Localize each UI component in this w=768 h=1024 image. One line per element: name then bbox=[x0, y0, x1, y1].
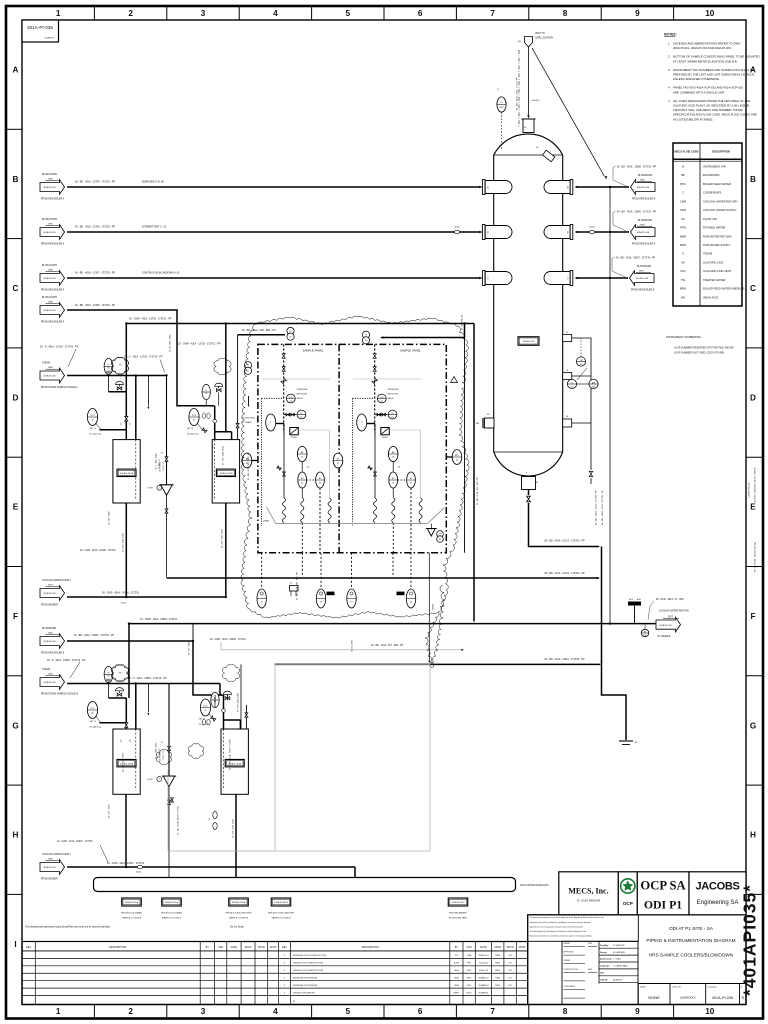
svg-text:PRESSURE: PRESSURE bbox=[297, 389, 309, 391]
svg-text:0960: 0960 bbox=[48, 269, 54, 271]
svg-text:ODI AT P1 SITE - SA: ODI AT P1 SITE - SA bbox=[669, 926, 714, 931]
funnel stem bbox=[168, 785, 170, 868]
acid conveyance main trough bbox=[94, 878, 516, 892]
svg-text:*401API035*: *401API035* bbox=[740, 884, 760, 996]
svg-text:2: 2 bbox=[159, 488, 160, 490]
svg-text:EMERGENCY B. B2: EMERGENCY B. B2 bbox=[142, 181, 165, 184]
lower funnel stem to trough bbox=[168, 868, 170, 878]
panel drain funnel TP bbox=[427, 529, 435, 537]
svg-text:RAIN WATER SUPPLY: RAIN WATER SUPPLY bbox=[703, 243, 731, 247]
svg-text:REISSUED FOR DESIGN: REISSUED FOR DESIGN bbox=[293, 978, 318, 980]
svg-text:DESCRIPTION: DESCRIPTION bbox=[362, 946, 379, 949]
svg-text:9: 9 bbox=[635, 9, 640, 18]
riser cooler3 CWR bbox=[128, 624, 130, 698]
svg-text:BLOW DOWN: BLOW DOWN bbox=[42, 297, 57, 299]
svg-text:2.: 2. bbox=[668, 55, 671, 59]
sample cylinder item bbox=[290, 586, 299, 592]
svg-text:CWR: CWR bbox=[680, 199, 686, 203]
svg-text:REDUCING: REDUCING bbox=[297, 394, 308, 396]
svg-text:20 - CWR - 401A - 13803 - 1T2T: 20 - CWR - 401A - 13803 - 1T2T01 bbox=[210, 638, 246, 641]
panel AE analyzer bbox=[297, 446, 307, 461]
svg-text:NOTE: NOTE bbox=[148, 488, 154, 490]
svg-text:BY: BY bbox=[206, 946, 210, 949]
svg-text:1: 1 bbox=[56, 9, 61, 18]
equipment tag 401A-E-015B bbox=[162, 898, 182, 906]
svg-text:BLOWDOWN: BLOWDOWN bbox=[637, 266, 652, 268]
svg-text:Proj.Mgr.: Proj.Mgr. bbox=[600, 945, 609, 947]
svg-text:4.: 4. bbox=[668, 86, 671, 90]
disclaimer text box bbox=[528, 915, 639, 942]
svg-text:401A-E-015 B: 401A-E-015 B bbox=[165, 901, 179, 904]
open drain symbol bbox=[619, 740, 633, 742]
svg-text:50x20: 50x20 bbox=[121, 603, 126, 605]
pipe 80-BD-13811 lower header bbox=[275, 663, 601, 665]
svg-text:Architecural: Architecural bbox=[600, 958, 612, 961]
cooler2 short stub valve bbox=[245, 705, 247, 729]
pipe steam B main extension bbox=[169, 683, 220, 685]
svg-text:ISSUED FOR CONSTRUCTION: ISSUED FOR CONSTRUCTION bbox=[293, 970, 324, 972]
svg-text:20 - CWS - 401A - 24106: 20 - CWS - 401A - 24106 bbox=[221, 529, 224, 548]
svg-text:ALL LINES DESIGNATED INSIDE TH: ALL LINES DESIGNATED INSIDE THE HRS AREA… bbox=[673, 99, 750, 103]
svg-text:APVD: APVD bbox=[245, 946, 252, 949]
riser 241 bbox=[240, 664, 242, 729]
svg-text:20 - CWR - 401A - 13802 - 1T2T: 20 - CWR - 401A - 13802 - 1T2T01 bbox=[140, 618, 178, 621]
svg-text:20 - C - 401A - 13703 - 1T2T19: 20 - C - 401A - 13703 - 1T2T19 - PP bbox=[124, 356, 163, 359]
svg-text:REISSUED FOR DESIGN: REISSUED FOR DESIGN bbox=[293, 985, 318, 987]
svg-text:20 - BD - 401A - 006 - B60 - P: 20 - BD - 401A - 006 - B60 - PP bbox=[476, 476, 479, 505]
svg-text:0960: 0960 bbox=[48, 632, 54, 634]
svg-text:FFG: FFG bbox=[467, 978, 472, 980]
arrow stub on steam line bbox=[147, 684, 149, 713]
svg-text:2: 2 bbox=[128, 9, 133, 18]
svg-text:40 - BD - 401A - 13708: 40 - BD - 401A - 13708 bbox=[169, 335, 172, 352]
svg-text:401A-PI-033: 401A-PI-033 bbox=[43, 375, 56, 378]
svg-text:WA: WA bbox=[681, 295, 685, 299]
panel AT bubbles bbox=[389, 472, 398, 488]
svg-text:PROB HRS BOILER B: PROB HRS BOILER B bbox=[632, 244, 656, 246]
svg-text:24 - CWS - 401A - 24307 - 1T2T: 24 - CWS - 401A - 24307 - 1T2T01 bbox=[57, 840, 93, 843]
svg-text:BD: BD bbox=[681, 173, 685, 177]
svg-text:9: 9 bbox=[635, 1007, 640, 1016]
svg-text:This drawing was generated usi: This drawing was generated using SmartPl… bbox=[25, 926, 111, 929]
svg-text:20 - CWS - 24106: 20 - CWS - 24106 bbox=[109, 511, 111, 525]
svg-text:RWK: RWK bbox=[495, 970, 500, 972]
vent diagonal tie line bbox=[532, 48, 605, 177]
svg-text:401A-PI-035: 401A-PI-035 bbox=[27, 25, 53, 30]
svg-text:N6: N6 bbox=[566, 370, 568, 372]
svg-text:APVD: APVD bbox=[270, 946, 277, 949]
svg-text:E: E bbox=[750, 503, 756, 512]
svg-text:80 - BD - 401A - 13712 - 1T2T0: 80 - BD - 401A - 13712 - 1T2T02 - PP bbox=[545, 572, 586, 575]
svg-text:SAMPLE COOLER B: SAMPLE COOLER B bbox=[162, 916, 182, 919]
panel A edge analyzer bubble bbox=[242, 453, 252, 468]
svg-text:ST. LOUIS, MISSOURI: ST. LOUIS, MISSOURI bbox=[577, 901, 601, 903]
svg-text:0960: 0960 bbox=[640, 224, 646, 226]
svg-text:MCG: MCG bbox=[629, 599, 634, 601]
cloudlets by others markers bbox=[111, 358, 128, 375]
off-page flag to 401A-PI-036 row3 bbox=[577, 277, 629, 279]
level bridle piping bbox=[572, 338, 591, 470]
svg-text:B: B bbox=[13, 175, 19, 184]
level gauge LG bbox=[567, 379, 576, 388]
gray sample line 20-BD-007 bbox=[220, 642, 222, 650]
equipment tag 401A-E-016A bbox=[229, 898, 249, 906]
svg-text:CKD: CKD bbox=[218, 946, 223, 949]
svg-text:Q3000XXX: Q3000XXX bbox=[680, 996, 695, 1000]
svg-text:401API035: 401API035 bbox=[613, 978, 622, 981]
svg-text:D: D bbox=[13, 393, 19, 402]
svg-text:ISSUED FOR CONSTRUCTION: ISSUED FOR CONSTRUCTION bbox=[293, 963, 324, 965]
svg-text:1: 1 bbox=[453, 380, 454, 382]
vessel drain nozzle bbox=[563, 419, 572, 427]
svg-text:0960: 0960 bbox=[48, 178, 54, 180]
svg-text:RGA: RGA bbox=[454, 977, 459, 980]
level bridle bottom valve bbox=[589, 471, 592, 476]
svg-text:40x50: 40x50 bbox=[454, 227, 459, 229]
svg-text:- 1T2T19 - PP: - 1T2T19 - PP bbox=[159, 748, 161, 759]
svg-text:Engineering SA: Engineering SA bbox=[697, 900, 739, 906]
svg-text:FILTER: FILTER bbox=[382, 437, 388, 439]
upper cooler 2 bottom drop to CWS bbox=[225, 503, 227, 597]
svg-text:A 4x8 D1 - AS BUILT CHECK - PD: A 4x8 D1 - AS BUILT CHECK - PDF/LP bbox=[754, 467, 757, 502]
svg-text:40 - BD - 401A - 13708 - 1T2T1: 40 - BD - 401A - 13708 - 1T2T19 - PP bbox=[75, 304, 116, 307]
nozzle sparger row2 left bbox=[482, 225, 485, 240]
svg-text:BLOW DOWN: BLOW DOWN bbox=[42, 219, 57, 221]
svg-text:50x20: 50x20 bbox=[136, 872, 141, 874]
svg-text:MECS, Inc.: MECS, Inc. bbox=[568, 887, 608, 896]
svg-text:0960: 0960 bbox=[48, 223, 54, 225]
svg-text:R. SANFORD: R. SANFORD bbox=[613, 944, 625, 947]
svg-text:DATE: DATE bbox=[231, 946, 238, 949]
svg-text:H: H bbox=[750, 831, 756, 840]
svg-text:7: 7 bbox=[490, 1007, 495, 1016]
svg-text:BLOWDOWN: BLOWDOWN bbox=[42, 628, 57, 630]
svg-text:M. LANTWELL: M. LANTWELL bbox=[613, 951, 626, 954]
svg-text:N5: N5 bbox=[566, 332, 568, 334]
PRV inline valves bbox=[377, 413, 381, 416]
svg-text:20 - CWR - 401A - 13703: 20 - CWR - 401A - 13703 bbox=[221, 446, 224, 465]
svg-text:401A-PI-033: 401A-PI-033 bbox=[43, 309, 56, 312]
svg-text:63: 63 bbox=[456, 460, 458, 462]
svg-text:HRS SAMPLE COOLERS/BLOWDOWN: HRS SAMPLE COOLERS/BLOWDOWN bbox=[649, 953, 733, 958]
svg-text:DRC: DRC bbox=[643, 635, 648, 637]
svg-text:VENT TO: VENT TO bbox=[535, 33, 545, 35]
svg-text:RAIN WATER RETURN: RAIN WATER RETURN bbox=[703, 234, 732, 238]
svg-text:PROB HEADER: PROB HEADER bbox=[41, 604, 58, 607]
svg-text:PERMIT: PERMIT bbox=[564, 943, 572, 945]
svg-text:4: 4 bbox=[273, 9, 278, 18]
svg-text:FFG: FFG bbox=[467, 985, 472, 987]
panel TI circle bbox=[266, 414, 276, 431]
svg-text:PIPING & INSTRUMENTATION DIAGR: PIPING & INSTRUMENTATION DIAGRAM bbox=[646, 938, 735, 943]
sample cooler box 401A-E-016A bbox=[113, 729, 140, 794]
TP tie point bubble left bbox=[244, 362, 251, 369]
nozzle sparger row3 left bbox=[482, 271, 485, 286]
svg-text:3/4: 3/4 bbox=[121, 423, 123, 425]
svg-text:H: H bbox=[13, 831, 19, 840]
svg-text:RDG: RDG bbox=[467, 992, 472, 994]
steam sample line into coolers bbox=[67, 375, 167, 377]
svg-text:- 1T2T19 - PP: - 1T2T19 - PP bbox=[163, 751, 165, 761]
lower bank SC ovals bbox=[213, 812, 217, 819]
svg-text:GAPY: GAPY bbox=[454, 991, 460, 994]
cooler2 short stub valve bbox=[237, 416, 239, 440]
svg-text:B: B bbox=[750, 175, 756, 184]
svg-text:HRS BLR#1 B BLOWDOWN/: HRS BLR#1 B BLOWDOWN/ bbox=[268, 913, 295, 915]
svg-text:01: 01 bbox=[289, 336, 291, 338]
svg-text:0960: 0960 bbox=[48, 301, 54, 303]
svg-text:NONE: NONE bbox=[648, 995, 660, 1000]
svg-text:DESCRIPTION: DESCRIPTION bbox=[109, 946, 126, 949]
svg-text:401A-E-016 A: 401A-E-016 A bbox=[232, 901, 246, 904]
pressure control valve tag bbox=[189, 409, 199, 426]
right edge analyzer bubble bbox=[452, 450, 462, 465]
svg-text:V.G: V.G bbox=[455, 955, 459, 957]
svg-text:5: 5 bbox=[346, 1007, 351, 1016]
future equipment gray outline bbox=[275, 664, 430, 851]
panel PI bubble bbox=[297, 410, 306, 419]
equipment tag blowdown tank bbox=[448, 898, 468, 906]
TP tie point bubbles on panel top bbox=[287, 327, 294, 334]
pipe CWR return B bbox=[129, 623, 656, 625]
svg-text:63: 63 bbox=[392, 483, 394, 485]
svg-text:20 - BD - 401A - 007 - B60 - P: 20 - BD - 401A - 007 - B60 - PP bbox=[371, 644, 404, 647]
cooler2 PI balloon bbox=[211, 692, 219, 707]
svg-text:LOOP NUMBERS RESERVED FOR THIS: LOOP NUMBERS RESERVED FOR THIS P&ID: 900… bbox=[674, 348, 734, 350]
svg-text:AW: AW bbox=[592, 381, 595, 384]
panel TI circle bbox=[357, 414, 367, 431]
panel filter bbox=[290, 428, 299, 435]
svg-text:LOOP NUMBERS NOT USED: (CECO 0: LOOP NUMBERS NOT USED: (CECO 079-999) bbox=[674, 353, 724, 355]
svg-text:SAV: SAV bbox=[680, 269, 685, 273]
svg-text:80 - NCR - 401A - 07 - B02: 80 - NCR - 401A - 07 - B02 bbox=[656, 598, 684, 601]
svg-text:CONTINUOUS BLOWDOWN A. A2: CONTINUOUS BLOWDOWN A. A2 bbox=[142, 272, 180, 275]
title block outline bbox=[528, 915, 746, 1005]
svg-text:L. YUAN: L. YUAN bbox=[613, 958, 621, 961]
svg-text:401A-PI-036: 401A-PI-036 bbox=[636, 277, 649, 280]
svg-text:BOTTOM OF SAMPLE CONDITIONING: BOTTOM OF SAMPLE CONDITIONING PANEL TO B… bbox=[673, 55, 760, 59]
svg-text:0960: 0960 bbox=[48, 673, 54, 675]
revision triangle bbox=[451, 377, 458, 383]
svg-text:63: 63 bbox=[392, 457, 394, 459]
svg-text:RGA: RGA bbox=[454, 984, 459, 987]
svg-text:SPECIFICATION AND FLUID CODE.: SPECIFICATION AND FLUID CODE. MECS FLUID… bbox=[673, 113, 757, 117]
svg-text:401A-PI-036: 401A-PI-036 bbox=[637, 231, 650, 234]
svg-text:TO HEADER: TO HEADER bbox=[657, 635, 671, 638]
svg-text:DRAIN: DRAIN bbox=[263, 520, 270, 523]
cloud lobe line down to drain header bbox=[428, 553, 430, 660]
svg-text:63: 63 bbox=[351, 602, 353, 604]
svg-text:80 - SAV - 401A - 13601 - 1T2T: 80 - SAV - 401A - 13601 - 1T2T02 - PP bbox=[516, 77, 519, 110]
svg-text:Contract No.: Contract No. bbox=[672, 986, 682, 989]
svg-text:80: 80 bbox=[536, 482, 538, 484]
level bridle nozzle upper bbox=[563, 335, 572, 342]
svg-text:20 - CWR - 13803: 20 - CWR - 13803 bbox=[189, 641, 191, 655]
svg-text:B1: B1 bbox=[488, 231, 490, 233]
svg-text:20 - C - 401A - 13803 - 1T2T19: 20 - C - 401A - 13803 - 1T2T19 - PP bbox=[128, 677, 167, 680]
steam jog to cooler 2 bbox=[193, 641, 223, 695]
svg-text:LW: LW bbox=[509, 963, 512, 965]
svg-text:BLOWDOWN: BLOWDOWN bbox=[241, 417, 255, 419]
svg-text:OCP SA: OCP SA bbox=[640, 879, 685, 893]
title block bottom row bbox=[637, 984, 639, 1005]
panel sample line lower bbox=[283, 437, 285, 498]
svg-text:3/4: 3/4 bbox=[121, 740, 123, 742]
panel sample inlet dashed line bbox=[283, 344, 285, 430]
svg-text:SULFURIC ACID PLANT, AS INDICA: SULFURIC ACID PLANT, AS INDICATED BY A (… bbox=[673, 104, 749, 108]
svg-text:TW: TW bbox=[119, 673, 122, 675]
svg-text:2: 2 bbox=[159, 779, 160, 781]
svg-text:F: F bbox=[750, 612, 755, 621]
svg-text:C1: C1 bbox=[488, 277, 490, 279]
cooler1 pressure control valve cluster bbox=[87, 409, 97, 426]
svg-text:APVD: APVD bbox=[494, 946, 501, 949]
svg-text:60: 60 bbox=[91, 712, 93, 714]
panel AE analyzer bbox=[388, 446, 398, 461]
svg-text:401A-PI-033: 401A-PI-033 bbox=[43, 277, 56, 280]
pipe 20-CWR-13702 cooling water return header A bbox=[126, 323, 474, 325]
cooler2 actuator valve bbox=[215, 383, 223, 386]
revision cloud around sample panels bbox=[241, 316, 469, 618]
condensate drop to funnel bbox=[166, 376, 168, 486]
svg-text:11-JUN-12: 11-JUN-12 bbox=[478, 963, 489, 965]
svg-text:REV: REV bbox=[26, 946, 31, 949]
svg-text:6: 6 bbox=[418, 1007, 423, 1016]
svg-text:Originator: Originator bbox=[600, 965, 610, 968]
equipment tag 401A-E-015A bbox=[122, 898, 142, 906]
pipe 40-BD-13707 continuous blowdown line bbox=[67, 277, 480, 279]
svg-text:SULFURIC ACID: SULFURIC ACID bbox=[703, 260, 724, 264]
svg-text:BLOWDOWN: BLOWDOWN bbox=[638, 220, 653, 222]
cooler2 actuator valve bbox=[224, 691, 232, 694]
svg-text:80 - BD - 401A - 13713 - 1T2T0: 80 - BD - 401A - 13713 - 1T2T02 - PP bbox=[595, 490, 598, 525]
svg-text:PLANT AIR: PLANT AIR bbox=[703, 217, 717, 221]
svg-text:40 - BD - 401A - 13707 - 1T2T1: 40 - BD - 401A - 13707 - 1T2T19 - PP bbox=[75, 272, 116, 275]
below panel dashed sample takeoffs bbox=[392, 523, 394, 553]
svg-text:SAMPLE COOLER A: SAMPLE COOLER A bbox=[229, 916, 249, 919]
below-panel sample instruments bbox=[261, 553, 263, 589]
svg-text:POTABLE WATER: POTABLE WATER bbox=[703, 226, 725, 230]
sample cooler box 401A-E-015B bbox=[212, 440, 239, 503]
svg-text:PRESSURE: PRESSURE bbox=[388, 389, 400, 391]
svg-text:0960: 0960 bbox=[500, 107, 504, 109]
svg-text:TD640: TD640 bbox=[433, 604, 435, 610]
svg-text:HRS BLR#1 B STEAM/: HRS BLR#1 B STEAM/ bbox=[161, 912, 182, 915]
svg-text:NOTES:: NOTES: bbox=[664, 33, 677, 37]
svg-text:401A-PI-034: 401A-PI-034 bbox=[43, 866, 56, 869]
riser CWR from cooler 1 bbox=[125, 324, 127, 392]
panel filter bbox=[381, 428, 390, 435]
panel gray tubing bbox=[262, 378, 330, 380]
svg-text:SAMPLE COOLER B: SAMPLE COOLER B bbox=[271, 916, 291, 919]
svg-text:CWS: CWS bbox=[680, 208, 686, 212]
svg-text:401A-D-015: 401A-D-015 bbox=[523, 340, 536, 343]
svg-text:SCALE: SCALE bbox=[640, 986, 646, 989]
svg-text:0960: 0960 bbox=[48, 858, 54, 860]
svg-text:(FT): (FT) bbox=[518, 41, 522, 43]
svg-text:401A-PI-032: 401A-PI-032 bbox=[43, 592, 56, 595]
svg-text:401A-TK-015: 401A-TK-015 bbox=[451, 901, 465, 904]
panel gray tubing bbox=[353, 378, 421, 380]
svg-text:SAMPLE COOLER A: SAMPLE COOLER A bbox=[122, 916, 142, 919]
pressure reducing valve bubble bbox=[377, 394, 386, 403]
svg-text:0977: 0977 bbox=[668, 617, 674, 619]
svg-text:Do not Scale: Do not Scale bbox=[230, 926, 244, 929]
svg-text:SET @: SET @ bbox=[187, 428, 193, 430]
svg-text:3/4: 3/4 bbox=[130, 740, 132, 742]
svg-text:C: C bbox=[750, 284, 756, 293]
svg-text:RWK: RWK bbox=[495, 985, 500, 987]
svg-text:401A-E-016 B: 401A-E-016 B bbox=[274, 901, 288, 904]
panel coils bbox=[373, 498, 376, 523]
panel sample line lower bbox=[374, 437, 376, 498]
off-page flag to 401A-PI-036 row1 bbox=[577, 186, 630, 188]
svg-text:MECS FLUID CODE: MECS FLUID CODE bbox=[674, 150, 698, 154]
svg-text:LEGENDS AND ABBREVIATIONS REFE: LEGENDS AND ABBREVIATIONS REFER TO DWG. bbox=[673, 42, 741, 46]
svg-text:20 - CWS - 401A - 24307: 20 - CWS - 401A - 24307 bbox=[232, 819, 235, 838]
svg-text:40 - BD - 401A - 13606 - 1T2T1: 40 - BD - 401A - 13606 - 1T2T19 - PP bbox=[617, 210, 657, 213]
svg-text:CAD file: CAD file bbox=[600, 978, 609, 981]
svg-text:RJA: RJA bbox=[467, 954, 472, 957]
svg-text:LW: LW bbox=[509, 955, 512, 957]
svg-text:10: 10 bbox=[705, 9, 715, 18]
PRV inline valves bbox=[286, 413, 290, 416]
branch to sample panel B from CWR header bbox=[382, 324, 465, 338]
svg-text:80 - BD - 401A - 13811 - 1T2T0: 80 - BD - 401A - 13811 - 1T2T02 - PP bbox=[545, 658, 585, 661]
svg-text:RWK: RWK bbox=[495, 963, 500, 965]
svg-text:D: D bbox=[750, 393, 756, 402]
branch to sample panel A from cooler2 outlet bbox=[237, 335, 239, 416]
svg-text:20 - CWR - 401A - 13702 - 1T2T: 20 - CWR - 401A - 13702 - 1T2T01 - PP bbox=[129, 318, 172, 321]
svg-text:8.6 kg/Cm2g: 8.6 kg/Cm2g bbox=[187, 434, 198, 436]
svg-text:G: G bbox=[12, 721, 18, 730]
svg-text:PROB HRS BOILER A: PROB HRS BOILER A bbox=[41, 198, 65, 201]
svg-text:JACOBS: JACOBS bbox=[695, 881, 739, 893]
svg-text:4-401A-PI-035.dgn: 4-401A-PI-035.dgn bbox=[748, 482, 751, 497]
svg-text:20 - CWS - 401A - 24307: 20 - CWS - 401A - 24307 bbox=[122, 753, 125, 772]
svg-text:8.6 kg/Cm2g: 8.6 kg/Cm2g bbox=[90, 727, 101, 729]
svg-text:60: 60 bbox=[91, 419, 93, 421]
panel B edge analyzer bubble bbox=[333, 453, 343, 468]
svg-text:PCV: PCV bbox=[90, 708, 95, 710]
svg-text:LW: LW bbox=[509, 978, 512, 980]
steam sample line into coolers bbox=[67, 683, 169, 685]
svg-text:PROB HRS BOILER B: PROB HRS BOILER B bbox=[41, 653, 65, 655]
cooler inlet piping cluster bbox=[104, 667, 113, 683]
svg-text:0960: 0960 bbox=[48, 367, 54, 369]
svg-text:3/4: 3/4 bbox=[130, 423, 132, 425]
pipe 50-BD-13709 emergency blowdown line bbox=[67, 186, 480, 188]
OCP logo box bbox=[618, 872, 637, 915]
svg-text:INSTRUMENT AIR: INSTRUMENT AIR bbox=[703, 165, 726, 169]
svg-text:401A-PI-034: 401A-PI-034 bbox=[43, 640, 56, 643]
approval form rows bbox=[562, 941, 638, 1004]
svg-text:M1: M1 bbox=[487, 414, 490, 416]
svg-text:HRS BLR#1 A BLOWDOWN/: HRS BLR#1 A BLOWDOWN/ bbox=[226, 912, 252, 915]
svg-text:4.: 4. bbox=[668, 99, 671, 103]
svg-text:PROB HRS BOILER A: PROB HRS BOILER A bbox=[41, 289, 65, 292]
nozzle sparger row2 right bbox=[544, 226, 570, 239]
condensate drop to funnel bbox=[168, 684, 170, 777]
svg-text:HRS PRELIMINARY: HRS PRELIMINARY bbox=[449, 912, 468, 915]
svg-text:401A-PI-033: 401A-PI-033 bbox=[43, 231, 56, 234]
svg-text:63: 63 bbox=[319, 483, 321, 485]
blowdown to drain note and arrow bbox=[248, 396, 250, 404]
drawing number box top-left bbox=[22, 20, 59, 42]
svg-text:401A-E-015A: 401A-E-015A bbox=[120, 472, 134, 475]
svg-text:20 - BD - 401A - 005: 20 - BD - 401A - 005 bbox=[460, 315, 463, 330]
svg-text:N8: N8 bbox=[566, 416, 568, 418]
